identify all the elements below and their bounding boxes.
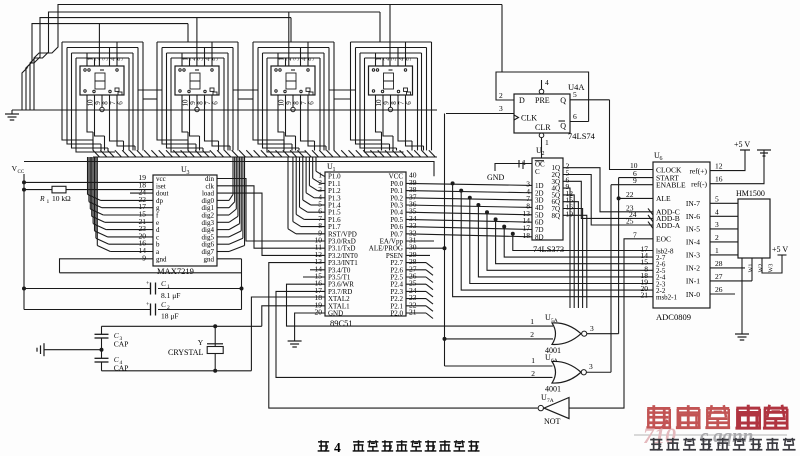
wire MAX7219 clk to 89C51	[217, 186, 325, 248]
wire bus drop to U4A loop	[501, 5, 503, 73]
wire RST fan	[288, 157, 325, 234]
wire IN-2 stub	[710, 267, 745, 269]
svg-text:2: 2	[531, 369, 535, 378]
wire R1 left lead	[24, 189, 52, 191]
flip-flop U4A 74LS74 box	[514, 94, 570, 133]
wire ALE to vertical	[406, 247, 445, 249]
wire inter-display links	[138, 90, 356, 99]
svg-text:5: 5	[212, 57, 220, 61]
svg-text:CLK: CLK	[521, 114, 537, 123]
wire P0.0 to 74LS373 1D	[406, 183, 532, 185]
svg-text:10 kΩ: 10 kΩ	[52, 194, 71, 203]
svg-text:2: 2	[530, 330, 534, 339]
wire bus drop to display2 pin3	[196, 18, 198, 66]
wire R1 to MAX7219 pin18	[66, 189, 153, 191]
svg-text:1: 1	[167, 284, 170, 290]
latch U2 74LS373 box and labels	[523, 146, 574, 241]
wire crystal vertical	[214, 326, 216, 346]
wire top bus line 4	[22, 24, 188, 110]
wire W2	[751, 258, 753, 281]
svg-text:CAP: CAP	[114, 364, 129, 373]
wire gate1 output	[587, 333, 619, 335]
svg-text:CC: CC	[18, 170, 25, 175]
wire P0.2 to 74LS373 3D	[406, 198, 532, 200]
svg-text:4: 4	[715, 207, 719, 216]
wire ground rail under displays	[12, 109, 437, 111]
svg-text:ref(-): ref(-)	[691, 180, 707, 189]
junction crystal bottom	[213, 369, 217, 373]
junctions P0 taps	[451, 181, 515, 235]
svg-text:2: 2	[715, 233, 719, 242]
svg-text:22: 22	[626, 190, 634, 199]
svg-text:CLR: CLR	[535, 123, 551, 132]
svg-text:5: 5	[117, 57, 125, 61]
gate U6A 4001 NOR	[552, 361, 586, 383]
ground symbol top-left	[5, 110, 19, 120]
svg-text:6: 6	[405, 101, 413, 105]
svg-text:IN-2: IN-2	[686, 264, 700, 273]
inverter U7A NOT	[538, 398, 569, 419]
wire W3 to +5V	[762, 255, 782, 273]
svg-text:3: 3	[589, 362, 593, 371]
svg-text:P2.0: P2.0	[390, 310, 403, 318]
svg-text:3: 3	[715, 220, 719, 229]
wire ref- to ground	[710, 150, 764, 184]
svg-text:4: 4	[545, 78, 549, 87]
svg-text:3: 3	[590, 324, 594, 333]
svg-text:28: 28	[715, 259, 723, 268]
wire crystal loop top	[102, 325, 262, 327]
label Vcc node	[12, 164, 25, 175]
svg-text:IN-5: IN-5	[686, 225, 700, 234]
svg-text:26: 26	[715, 285, 723, 294]
label Y CRYSTAL	[168, 338, 204, 357]
wire C2 net	[24, 309, 242, 311]
wire top bus line 3	[26, 18, 291, 110]
junction Vcc-pin19	[22, 180, 26, 184]
label U5A	[545, 313, 558, 324]
labels W1 W2 W3	[749, 264, 775, 273]
svg-text:MAX7219: MAX7219	[157, 266, 194, 276]
ground symbol G2 under 89C51	[288, 337, 302, 347]
svg-text:Q: Q	[560, 122, 566, 131]
junction C1 left	[22, 287, 26, 291]
svg-text:6: 6	[117, 101, 125, 105]
7-segment display DS4	[351, 42, 432, 152]
svg-text:W2: W2	[759, 264, 765, 273]
svg-text:IN-4: IN-4	[686, 238, 700, 247]
wire W1 to ground	[741, 258, 743, 330]
wire P0.3 to 74LS373 4D	[406, 205, 532, 207]
wire top bus line 2	[30, 12, 380, 110]
label C1 8.1uF	[161, 279, 180, 300]
U4A CLR bubble	[539, 133, 544, 158]
watermark yiditu training	[634, 405, 796, 451]
wire Q to ADC CLOCK	[610, 100, 654, 170]
wire band collector rail	[93, 156, 437, 158]
svg-text:IN-6: IN-6	[686, 212, 700, 221]
adc U6 ADC0809 box and labels	[641, 151, 723, 308]
svg-text:1: 1	[715, 246, 719, 255]
svg-text:7A: 7A	[547, 398, 554, 404]
svg-text:C: C	[535, 168, 540, 176]
wire bus drop to display3 pin3	[288, 12, 290, 66]
wire MAX7219 gnd right	[217, 258, 242, 260]
svg-text:GND: GND	[328, 310, 343, 318]
wire P3.3 to NOT output	[269, 263, 538, 409]
svg-text:1: 1	[333, 167, 336, 173]
wire gate1 input2	[445, 338, 554, 340]
wire P0.4 to 74LS373 5D	[406, 212, 532, 215]
wire Vcc rail to 89C51 pin40	[24, 162, 434, 177]
svg-text:18: 18	[523, 231, 531, 240]
svg-text:8D: 8D	[535, 233, 544, 241]
svg-text:ADC0809: ADC0809	[656, 312, 691, 322]
wire pin29 PSEN stub	[406, 254, 430, 256]
wire START vertical from gate1	[618, 178, 620, 334]
svg-text:12: 12	[715, 162, 723, 171]
svg-text:R: R	[39, 194, 45, 203]
svg-text:ADD-A: ADD-A	[656, 221, 681, 230]
svg-text:GND: GND	[487, 173, 505, 182]
gate U5A 4001 NOR	[552, 323, 587, 345]
junction Vcc-R1	[22, 188, 26, 192]
IC U3 MAX7219 box and pin labels	[139, 165, 218, 266]
IC U1 89C51 box and pin labels	[315, 162, 417, 318]
wire IN-5 to HM1500	[710, 228, 738, 230]
svg-text:6: 6	[660, 156, 663, 162]
svg-text:6: 6	[308, 101, 316, 105]
7-segment display DS3	[253, 42, 334, 152]
wire bus drop to display4 pin3	[389, 5, 391, 67]
wire IN-1 to W2	[710, 280, 752, 282]
junction C1 right	[240, 287, 244, 291]
svg-text:D: D	[519, 96, 525, 105]
svg-text:IN-3: IN-3	[686, 251, 700, 260]
wire XTAL1 link	[262, 306, 325, 327]
wire P3.4 stub	[310, 269, 325, 271]
svg-text:5: 5	[308, 57, 316, 61]
7-segment display DS1	[62, 42, 143, 152]
junction ALE	[443, 246, 447, 250]
wire Vcc to MAX7219 pin19	[24, 181, 153, 183]
wire IN-7 to HM1500	[710, 202, 738, 204]
capacitor C1	[146, 281, 156, 295]
svg-text:IN-0: IN-0	[686, 290, 700, 299]
wire bundle band to MAX7219 segment pins	[88, 157, 154, 252]
wire IN-4 to HM1500	[710, 241, 738, 243]
wire EA stub	[406, 240, 434, 242]
resistor R1	[52, 186, 66, 193]
wire right gnd vertical	[241, 259, 243, 310]
label C2 18uF	[161, 300, 179, 321]
wire Q output	[570, 99, 610, 101]
label C4 CAP	[114, 355, 129, 373]
wire bus end drop 2	[379, 12, 381, 42]
wire U4A feedback loop	[496, 72, 589, 122]
wire IN-0 stub	[710, 293, 735, 295]
wire P3.5 stub	[303, 276, 325, 278]
svg-text:19: 19	[566, 209, 574, 218]
wire bus drop to display1 pin3	[98, 24, 100, 66]
svg-text:8.1 μF: 8.1 μF	[161, 291, 180, 300]
wire top bus line 1	[34, 5, 502, 111]
wire bundle P0 staircase to ADC data pins	[453, 183, 653, 296]
wire P0.5 to 74LS373 6D	[406, 219, 532, 222]
svg-text:Q: Q	[560, 96, 566, 105]
svg-text:NOT: NOT	[544, 417, 561, 426]
wire gate2 output	[586, 371, 611, 373]
wire bus end drop 4	[187, 24, 189, 42]
wire bundle P2 stubs	[406, 263, 433, 319]
svg-text:21: 21	[641, 291, 649, 300]
wire IN-6 to HM1500	[710, 215, 738, 217]
wire MAX7219 load to 89C51	[217, 193, 325, 255]
wire P3.7 to gate2 input2	[276, 291, 553, 377]
svg-text:1: 1	[545, 138, 549, 147]
wire XTAL2 link	[251, 297, 325, 371]
wire bundle diagonal feet into collector rail	[93, 132, 435, 157]
wire P0.6 to 74LS373 7D	[406, 227, 532, 230]
crystal Y1	[207, 344, 223, 371]
svg-text:gnd: gnd	[204, 255, 215, 263]
wire MAX7219 dout stub	[130, 192, 153, 194]
wire IN-3 to HM1500	[710, 254, 738, 256]
svg-text:21: 21	[409, 308, 417, 317]
svg-text:5A: 5A	[551, 318, 558, 324]
svg-text:1: 1	[47, 199, 50, 205]
svg-text:6: 6	[212, 101, 220, 105]
ground symbol G5 top right	[757, 150, 771, 156]
svg-text:gnd: gnd	[156, 255, 167, 263]
wire 1Q to ADD-C	[563, 168, 653, 212]
wire ref+ to +5V	[710, 150, 745, 171]
svg-text:74LS373: 74LS373	[533, 244, 564, 254]
7-segment display DS2	[157, 42, 238, 152]
wire START line	[619, 177, 653, 179]
wire OC-GND gizmo	[495, 160, 532, 171]
caption text 图4 湿度检测总体电路图	[318, 440, 480, 455]
svg-text:1: 1	[530, 317, 534, 326]
wire ADD stubs cross ticks	[648, 208, 653, 228]
wire ALE line	[619, 197, 653, 199]
svg-text:5: 5	[405, 57, 413, 61]
svg-text:CAP: CAP	[114, 340, 129, 349]
svg-text:W3: W3	[769, 264, 775, 273]
svg-text:ref(+): ref(+)	[689, 166, 707, 175]
svg-text:ENABLE: ENABLE	[656, 181, 686, 190]
svg-text:+5 V: +5 V	[772, 245, 788, 254]
power +5V right	[772, 245, 788, 255]
svg-text:3: 3	[499, 104, 503, 113]
wire MAX7219 gnd left to rail	[60, 259, 154, 273]
svg-text:ALE: ALE	[656, 194, 671, 203]
svg-text:W1: W1	[749, 264, 755, 273]
wire bundle MAX7219 dig pins up to band	[217, 157, 245, 252]
junction ALE-START	[617, 196, 621, 200]
svg-text:6A: 6A	[551, 358, 558, 364]
svg-text:CRYSTAL: CRYSTAL	[168, 348, 203, 357]
ground symbol G3 crystal	[37, 343, 102, 356]
svg-text:msb2-1: msb2-1	[656, 294, 678, 302]
junction C3-C4-gnd	[100, 348, 104, 352]
wire GND pin20 down	[295, 313, 325, 337]
svg-text:74LS74: 74LS74	[568, 131, 596, 141]
wire ENABLE vertical from gate2	[610, 185, 612, 373]
svg-text:25: 25	[626, 217, 634, 226]
label U7A	[541, 393, 554, 404]
sensor HM1500 box	[738, 199, 770, 258]
svg-text:27: 27	[715, 272, 723, 281]
wire P0.1 to 74LS373 2D	[406, 191, 532, 193]
svg-text:Y: Y	[198, 338, 204, 347]
wire EOC line to NOT	[569, 239, 653, 408]
svg-text:3: 3	[187, 170, 190, 176]
svg-text:PRE: PRE	[535, 96, 550, 105]
capacitor C3	[95, 326, 109, 349]
svg-text:IN-7: IN-7	[686, 199, 700, 208]
power +5V top	[734, 140, 750, 150]
wire crystal loop bottom	[102, 370, 252, 372]
svg-text:+5 V: +5 V	[734, 140, 750, 149]
wire P0.7 to 74LS373 8D	[406, 234, 532, 237]
svg-text:4001: 4001	[545, 385, 561, 394]
svg-text:2: 2	[167, 305, 170, 311]
svg-text:2: 2	[542, 151, 545, 157]
ground symbol G4 bottom right	[735, 330, 749, 340]
wire 2Q to ADD-A	[563, 175, 653, 226]
svg-text:18 μF: 18 μF	[161, 312, 179, 321]
svg-text:8Q: 8Q	[551, 212, 560, 220]
wire Vcc vertical left	[23, 174, 25, 310]
wire MAX7219 din to 89C51	[217, 179, 325, 242]
label R1 10k	[39, 194, 71, 205]
wire gate2 input1	[445, 365, 553, 367]
svg-text:5: 5	[715, 194, 719, 203]
wire C1 net	[24, 288, 242, 290]
svg-text:4: 4	[334, 440, 341, 455]
svg-text:IN-1: IN-1	[686, 277, 700, 286]
junction crystal top	[213, 324, 217, 328]
svg-text:2: 2	[499, 91, 503, 100]
wire bus end drop 3	[290, 18, 292, 42]
svg-text:20: 20	[315, 308, 323, 317]
svg-text:9: 9	[142, 253, 146, 262]
label C3 CAP	[114, 331, 129, 349]
wire MAX7219 gnd rail bottom	[60, 272, 242, 274]
wire P3.6 to gate1 input1	[287, 284, 554, 326]
svg-text:5: 5	[573, 90, 577, 99]
svg-text:6: 6	[573, 112, 577, 121]
wire ALE vertical CLK-gates	[444, 114, 446, 367]
svg-text:HM1500: HM1500	[736, 189, 765, 198]
wire bundle 4Q-8Q stubs down	[563, 188, 587, 308]
svg-text:16: 16	[715, 175, 723, 184]
svg-text:7: 7	[633, 230, 637, 239]
capacitor C4	[95, 350, 109, 371]
svg-text:EOC: EOC	[656, 235, 671, 244]
capacitor C2	[146, 302, 156, 316]
wire CLK input	[446, 113, 514, 115]
svg-text:1: 1	[531, 356, 535, 365]
junction ALE-gate1in2	[443, 337, 447, 341]
wire 3Q to ADD-B	[563, 181, 653, 218]
wire Qbar stub	[570, 121, 589, 123]
wire bundle band to 89C51 P1 pins	[293, 157, 325, 227]
U4A PRE bubble	[539, 80, 544, 94]
label U6A	[545, 353, 558, 364]
wire ENABLE line	[611, 184, 653, 186]
